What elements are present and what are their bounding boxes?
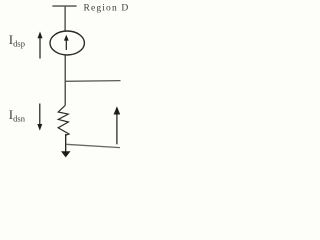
wire: terminal to current source top bbox=[64, 7, 66, 32]
current source arrow (inside ellipse, pointing up) bbox=[64, 35, 69, 50]
wire: resistor bottom to ground arrow bbox=[65, 134, 67, 152]
wire: output node horizontal (to right branch) bbox=[65, 80, 120, 83]
wire: bottom horizontal (node to right branch) bbox=[66, 144, 120, 147]
svg-text:Region D: Region D bbox=[84, 4, 130, 14]
current direction arrow I_dsn (down, left of resistor) bbox=[37, 104, 42, 131]
current source I_dsp (ellipse) bbox=[50, 31, 84, 55]
resistor (zigzag) bbox=[58, 105, 69, 135]
wire: current source bottom to resistor top bbox=[64, 55, 66, 105]
ground current arrow (filled, pointing down) bbox=[61, 151, 71, 157]
voltage arrow right branch (up) bbox=[114, 106, 121, 144]
current direction arrow I_dsp (up, left of source) bbox=[38, 32, 43, 59]
terminal bar (top supply terminal) bbox=[52, 5, 76, 7]
